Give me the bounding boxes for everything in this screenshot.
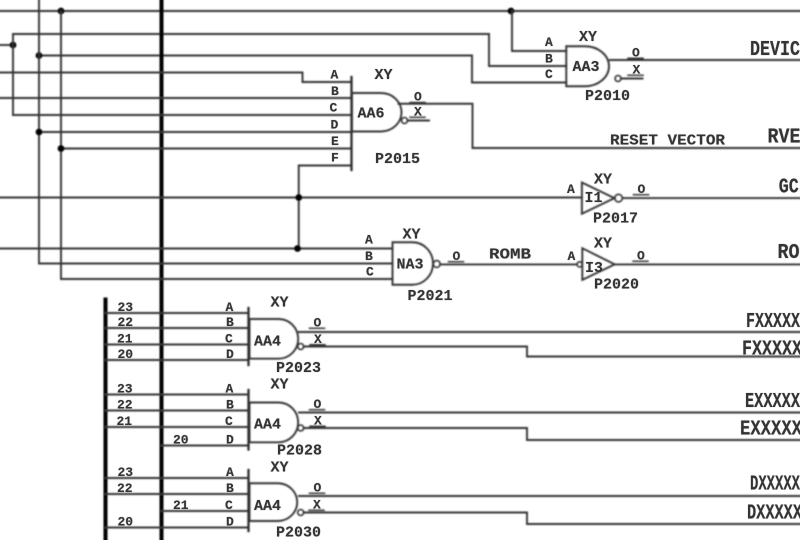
svg-text:P2030: P2030	[276, 525, 321, 540]
svg-text:F: F	[331, 151, 339, 166]
underline X gate1	[310, 344, 325, 346]
svg-text:B: B	[226, 398, 234, 413]
and-gate AA3 body	[566, 46, 609, 86]
wire 23 to gate1 A	[106, 312, 249, 314]
wire AA6 output O to reset vector	[399, 104, 800, 148]
bubble X output AA3	[615, 76, 621, 82]
svg-text:O: O	[314, 481, 322, 496]
bubble input I3	[577, 262, 582, 267]
and-gate AA4 gate3 rail	[247, 470, 249, 531]
svg-text:23: 23	[118, 300, 134, 315]
svg-text:A: A	[545, 35, 553, 50]
svg-text:RVES: RVES	[768, 127, 800, 150]
wire 22 to gate1 B	[106, 327, 249, 329]
wire X stub AA3	[621, 78, 643, 80]
and-gate AA4 gate1 body	[250, 319, 299, 359]
wire AA6 input D	[39, 131, 352, 133]
svg-text:X: X	[633, 63, 641, 78]
svg-text:AA4: AA4	[254, 498, 281, 515]
bubble output I1	[615, 194, 623, 202]
wire NA3 input A	[0, 248, 393, 250]
node junction at (298.75,197.5)	[295, 194, 302, 201]
svg-text:XY: XY	[594, 172, 612, 189]
svg-text:20: 20	[173, 433, 189, 448]
svg-text:O: O	[314, 397, 322, 412]
node junction at (511,11)	[508, 8, 515, 15]
bubble output NA3	[433, 261, 440, 268]
svg-text:XY: XY	[271, 377, 289, 394]
svg-text:D: D	[226, 347, 234, 362]
wire AA6 input F	[299, 166, 352, 249]
wire net3 horizontal y55.5	[39, 55, 472, 57]
wire gate2 O output EXXXX line	[299, 412, 800, 414]
node junction at (297.5,248.5)	[294, 245, 301, 252]
node junction at (61,148.5)	[58, 145, 65, 152]
svg-text:O: O	[637, 249, 645, 264]
svg-text:P2017: P2017	[593, 211, 638, 228]
wire net1 top horizontal	[0, 10, 800, 12]
svg-text:EXXXXX: EXXXXX	[740, 419, 800, 442]
wire net2 horizontal y34	[13, 33, 489, 35]
svg-text:X: X	[314, 414, 322, 429]
svg-text:GCL: GCL	[779, 177, 800, 200]
wire 23 to gate2 A	[106, 394, 249, 396]
svg-text:P2028: P2028	[277, 443, 322, 460]
wire vertical x13	[12, 34, 14, 115]
and-gate AA4 gate3 body	[250, 483, 298, 521]
svg-text:C: C	[225, 332, 233, 347]
svg-text:XY: XY	[594, 236, 612, 253]
underline O gate1	[310, 327, 325, 329]
bubble X output gate3	[298, 510, 304, 516]
wire 23 to gate3 A	[106, 477, 249, 479]
svg-text:NA3: NA3	[397, 257, 424, 274]
underline O gate2	[310, 409, 325, 411]
underline O NA3	[449, 261, 464, 263]
svg-text:21: 21	[173, 498, 189, 513]
wire NA3 input C	[61, 278, 393, 280]
wire NA3 output to I3	[440, 263, 577, 265]
underline O I3	[633, 260, 648, 262]
svg-text:FXXXXX: FXXXXX	[742, 339, 800, 362]
wire 20 to gate1 D	[106, 359, 249, 361]
bubble X output gate2	[298, 425, 304, 431]
svg-text:DEVICE: DEVICE	[750, 39, 800, 62]
svg-text:O: O	[453, 249, 461, 264]
svg-text:A: A	[226, 382, 234, 397]
wire AA6 input C	[13, 114, 352, 116]
svg-text:RESET VECTOR: RESET VECTOR	[610, 132, 725, 149]
svg-text:EXXXXX: EXXXXX	[745, 391, 800, 414]
svg-text:A: A	[331, 68, 339, 83]
svg-text:22: 22	[117, 398, 133, 413]
svg-text:A: A	[568, 249, 576, 264]
wire I1 output GCLR line	[623, 197, 800, 199]
svg-text:O: O	[414, 90, 422, 105]
svg-text:XY: XY	[271, 460, 289, 477]
svg-text:ROM: ROM	[778, 242, 800, 265]
wire gate1 X output FXXXXX stepped line	[304, 347, 800, 357]
svg-text:D: D	[226, 515, 234, 530]
svg-text:O: O	[632, 46, 640, 61]
svg-text:C: C	[366, 265, 374, 280]
underline X gate2	[310, 425, 325, 427]
svg-text:DXXXXX: DXXXXX	[750, 474, 800, 497]
underline O I1	[634, 194, 649, 196]
node junction at (39,55.5)	[36, 52, 43, 59]
wire 21 to gate3 C	[162, 510, 249, 512]
node junction at (13,45)	[10, 42, 17, 49]
bus thick vertical x161	[160, 0, 164, 540]
svg-text:XY: XY	[403, 227, 421, 244]
svg-text:23: 23	[118, 465, 134, 480]
and-gate AA6 input rail	[350, 77, 352, 170]
svg-text:DXXXXX: DXXXXX	[747, 503, 800, 526]
svg-text:23: 23	[117, 382, 133, 397]
svg-text:20: 20	[118, 347, 134, 362]
svg-text:X: X	[313, 498, 321, 513]
svg-text:21: 21	[117, 414, 133, 429]
wire 22 to gate3 B	[106, 493, 249, 495]
svg-text:AA4: AA4	[254, 334, 281, 351]
svg-text:P2021: P2021	[408, 288, 453, 305]
wire AA6 input B	[0, 97, 352, 99]
svg-text:P2020: P2020	[594, 277, 639, 294]
wire AA6 input A	[0, 73, 352, 83]
svg-text:AA3: AA3	[573, 59, 600, 76]
svg-text:A: A	[365, 233, 373, 248]
svg-text:20: 20	[118, 515, 134, 530]
svg-text:B: B	[545, 52, 553, 67]
wire gate2 X output EXXXXX stepped line	[304, 428, 800, 440]
svg-text:C: C	[545, 67, 553, 82]
node junction at (39,132)	[36, 129, 43, 136]
svg-text:AA6: AA6	[358, 106, 385, 123]
wire NA3 input B	[39, 263, 393, 265]
wire AA3 output O DEVICE line	[610, 59, 800, 61]
and-gate AA4 gate2 body	[250, 403, 299, 443]
bus thick vertical x105 lower	[104, 300, 108, 540]
wire 20 to gate3 D	[106, 527, 249, 529]
wire AA3 input A	[512, 11, 566, 51]
svg-text:E: E	[331, 134, 339, 149]
underline X AA3	[628, 74, 643, 76]
svg-text:O: O	[638, 182, 646, 197]
svg-text:XY: XY	[375, 67, 393, 84]
svg-text:D: D	[226, 433, 234, 448]
svg-text:C: C	[225, 414, 233, 429]
wire gate3 X output DXXXXX stepped line	[304, 513, 800, 525]
svg-text:22: 22	[117, 481, 133, 496]
svg-text:B: B	[226, 481, 234, 496]
node junction at (61,11)	[58, 8, 65, 15]
underline O AA3	[628, 57, 643, 59]
svg-text:B: B	[226, 315, 234, 330]
svg-text:B: B	[331, 84, 339, 99]
svg-text:A: A	[567, 182, 575, 197]
svg-text:I3: I3	[585, 260, 603, 277]
buffer I1 triangle	[582, 183, 615, 214]
wire gate3 O output DXXXX line	[299, 495, 800, 497]
wire vertical x61	[60, 11, 62, 279]
svg-text:C: C	[225, 498, 233, 513]
svg-text:ROMB: ROMB	[489, 247, 531, 264]
nand-gate NA3 body	[393, 242, 433, 285]
svg-text:AA4: AA4	[254, 417, 281, 434]
svg-text:P2010: P2010	[585, 88, 630, 105]
svg-text:FXXXXX: FXXXXX	[746, 311, 800, 334]
svg-text:O: O	[314, 316, 322, 331]
bubble X output AA6	[402, 118, 408, 124]
wire 22 to gate2 B	[106, 410, 249, 412]
and-gate AA6 body	[352, 93, 402, 132]
wire AA3 input B	[489, 34, 566, 66]
underline X AA6	[410, 116, 425, 118]
and-gate AA4 gate2 rail	[247, 390, 249, 450]
svg-text:I1: I1	[585, 190, 603, 207]
svg-text:A: A	[226, 465, 234, 480]
underline X gate3	[309, 509, 324, 511]
wire 21 to gate2 C	[106, 426, 249, 428]
wire 20 to gate2 D	[162, 445, 249, 447]
svg-text:XY: XY	[579, 29, 597, 46]
wire stub y45 left edge	[0, 44, 13, 46]
wire AA6 input E	[61, 148, 352, 150]
svg-text:D: D	[331, 118, 339, 133]
svg-text:P2015: P2015	[375, 151, 420, 168]
wire AA3 input C	[472, 56, 566, 83]
svg-text:P2023: P2023	[276, 360, 321, 377]
svg-text:X: X	[414, 105, 422, 120]
wire X stub AA6	[408, 120, 430, 122]
buffer I3 triangle	[582, 248, 614, 280]
underline O gate3	[310, 492, 325, 494]
wire gate1 O output FXXXX line	[299, 331, 800, 333]
svg-text:C: C	[330, 101, 338, 116]
wire vertical x39	[38, 0, 40, 264]
wire 21 to gate1 C	[106, 344, 249, 346]
svg-text:X: X	[314, 332, 322, 347]
wire GCLR input line y197.5	[0, 197, 582, 199]
wire I3 output ROM line	[615, 263, 800, 265]
svg-text:22: 22	[118, 315, 134, 330]
svg-text:A: A	[226, 300, 234, 315]
underline O AA6	[410, 102, 425, 104]
and-gate AA4 gate1 rail	[247, 308, 249, 365]
bubble X output gate1	[298, 344, 304, 350]
svg-text:XY: XY	[271, 295, 289, 312]
svg-text:B: B	[365, 249, 373, 264]
svg-text:21: 21	[117, 332, 133, 347]
